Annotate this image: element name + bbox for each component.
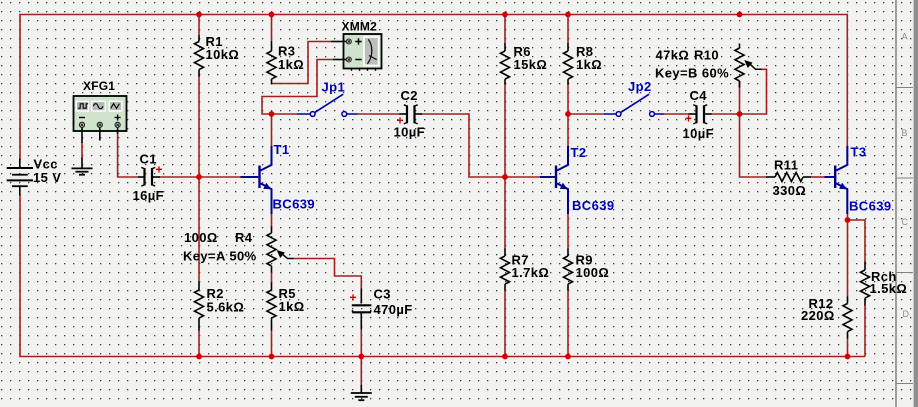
wire Jp1 right to C2 xyxy=(357,113,400,115)
svg-text:Key=A 50%: Key=A 50% xyxy=(183,249,257,264)
multimeter XMM2 xyxy=(331,34,382,71)
wire XFG plus down xyxy=(118,133,138,177)
resistor R3 xyxy=(267,41,276,84)
wire R11 right to T3 base xyxy=(811,176,825,178)
svg-text:C2: C2 xyxy=(401,88,418,103)
svg-text:16µF: 16µF xyxy=(133,188,165,203)
svg-text:15kΩ: 15kΩ xyxy=(514,57,548,72)
node T3 emitter xyxy=(845,217,851,223)
potentiometer R10 xyxy=(735,44,762,88)
svg-text:T1: T1 xyxy=(274,142,290,157)
svg-text:470µF: 470µF xyxy=(374,302,413,317)
node R3 top xyxy=(269,12,275,18)
wire R4 wiper to C3 xyxy=(293,259,361,290)
ground (XFG1) xyxy=(72,158,93,175)
ground (bottom, under C3) xyxy=(351,385,372,400)
node C4 R10 xyxy=(737,111,743,117)
wire R8 top lead xyxy=(567,15,569,44)
wire XMM2 minus to collector node xyxy=(262,60,333,115)
svg-text:100Ω: 100Ω xyxy=(576,265,610,280)
svg-text:C: C xyxy=(902,217,909,227)
svg-text:5.6kΩ: 5.6kΩ xyxy=(207,300,245,315)
resistor R11 xyxy=(766,173,811,182)
wire C2 right to T2 base xyxy=(421,114,540,177)
wire T3 emitter to junction xyxy=(847,214,849,220)
function generator XFG1 xyxy=(74,96,127,143)
node R7 bottom xyxy=(502,354,508,360)
jumper Jp2 xyxy=(604,94,664,116)
node T2 collector xyxy=(565,111,571,117)
svg-text:R4: R4 xyxy=(235,230,253,245)
svg-text:C3: C3 xyxy=(374,287,391,302)
wire top bus xyxy=(20,15,847,161)
resistor R9 xyxy=(564,249,573,291)
node R5 bottom xyxy=(269,354,275,360)
svg-text:10µF: 10µF xyxy=(683,126,715,141)
wire Jp2 right to C4 xyxy=(664,113,689,115)
resistor R6 xyxy=(501,43,510,85)
capacitor C2 xyxy=(400,105,423,124)
capacitor C3 xyxy=(352,289,372,330)
wire R1 top lead xyxy=(198,15,200,36)
wire R4 bottom to R5 xyxy=(271,272,273,283)
wire R3 top lead xyxy=(271,15,273,42)
wire R3 bottom to XMM2 plus xyxy=(272,42,332,84)
svg-text:47kΩ: 47kΩ xyxy=(656,48,690,63)
wire XFG minus down xyxy=(81,142,83,159)
potentiometer R4 xyxy=(267,227,294,273)
svg-text:R10: R10 xyxy=(694,48,719,63)
node R2 bottom xyxy=(196,354,202,360)
svg-text:XMM2: XMM2 xyxy=(342,20,378,34)
svg-text:1kΩ: 1kΩ xyxy=(576,57,602,72)
resistor R2 xyxy=(195,282,204,331)
wire C3 bottom xyxy=(360,329,362,357)
svg-text:A: A xyxy=(902,32,908,42)
svg-text:330Ω: 330Ω xyxy=(773,183,807,198)
resistor R8 xyxy=(564,43,573,85)
wire C4 right to R10 node xyxy=(711,113,740,115)
wire rch riser xyxy=(864,305,866,357)
svg-text:R11: R11 xyxy=(774,158,798,173)
node T2 base xyxy=(502,174,508,180)
node R9 bottom xyxy=(565,354,571,360)
wire R1 bottom to base node xyxy=(198,76,200,177)
node R6 top xyxy=(502,12,508,18)
svg-text:10µF: 10µF xyxy=(394,125,426,140)
svg-text:10kΩ: 10kΩ xyxy=(206,47,240,62)
svg-text:T2: T2 xyxy=(571,145,587,160)
wire switch node down to T2 collector xyxy=(567,114,569,161)
transistor T2 xyxy=(540,146,568,214)
node T1 base xyxy=(196,174,202,180)
svg-text:220Ω: 220Ω xyxy=(801,308,835,323)
svg-text:BC639: BC639 xyxy=(849,199,891,214)
svg-text:D: D xyxy=(903,309,910,319)
svg-text:+: + xyxy=(156,163,163,177)
svg-text:+: + xyxy=(350,291,357,305)
svg-text:Jp2: Jp2 xyxy=(628,79,652,94)
svg-text:1.5kΩ: 1.5kΩ xyxy=(870,281,908,296)
svg-text:Jp1: Jp1 xyxy=(322,80,346,95)
wire R9 bottom xyxy=(567,290,569,357)
wire left rail bottom xyxy=(20,195,865,357)
wire collector node down to T1 xyxy=(271,114,273,161)
node C3 bottom xyxy=(358,354,364,360)
wire R2 bottom xyxy=(198,330,200,357)
wire T2 emitter to R9 xyxy=(567,214,569,249)
wire base node to R2 xyxy=(198,177,200,282)
wire R7 bottom xyxy=(504,290,506,357)
svg-text:1kΩ: 1kΩ xyxy=(278,57,304,72)
resistor R7 xyxy=(501,249,510,291)
wire ground stub below bus xyxy=(360,357,362,387)
node R8 top xyxy=(565,12,571,18)
svg-text:+: + xyxy=(685,112,692,126)
jumper Jp1 xyxy=(297,94,358,116)
capacitor C1 xyxy=(138,167,160,186)
svg-text:15 V: 15 V xyxy=(33,170,61,185)
svg-text:C1: C1 xyxy=(140,152,157,167)
node T1 collector xyxy=(269,111,275,117)
node R1 top xyxy=(196,12,202,18)
transistor T3 xyxy=(825,146,848,214)
wire T1 emitter to R4 xyxy=(271,214,273,227)
wire emitter junction to Rch xyxy=(848,220,866,262)
svg-text:B: B xyxy=(902,128,908,138)
node R10 top xyxy=(737,12,743,18)
wire C1 to T1 base xyxy=(159,176,241,178)
wire R5 bottom xyxy=(271,330,273,357)
wire R8 bottom to switch node xyxy=(567,84,569,114)
wire R6 top lead xyxy=(504,15,506,44)
wire R12 bottom xyxy=(847,338,849,357)
svg-text:100Ω: 100Ω xyxy=(184,230,218,245)
resistor Rch xyxy=(861,262,870,306)
node R12 bottom xyxy=(845,354,851,360)
battery Vcc xyxy=(7,159,33,196)
svg-text:XFG1: XFG1 xyxy=(83,79,115,93)
wire base node to R7 xyxy=(504,177,506,249)
wire switch node to Jp2 xyxy=(568,113,604,115)
wire R10 wiper loop xyxy=(742,69,767,114)
wire emitter junction to R12 xyxy=(847,220,849,297)
wire R6 bottom to base node xyxy=(504,84,506,177)
svg-text:BC639: BC639 xyxy=(572,198,614,213)
capacitor C4 xyxy=(689,105,712,124)
svg-text:1.7kΩ: 1.7kΩ xyxy=(512,265,550,280)
svg-text:BC639: BC639 xyxy=(273,197,315,212)
svg-text:Key=B 60%: Key=B 60% xyxy=(655,66,729,81)
svg-text:1kΩ: 1kΩ xyxy=(279,299,305,314)
wire R10 bottom to R11 xyxy=(740,81,767,177)
resistor R1 xyxy=(195,35,204,77)
svg-text:T3: T3 xyxy=(851,145,867,160)
resistor R12 xyxy=(843,297,852,339)
svg-text:C4: C4 xyxy=(690,88,708,103)
transistor T1 xyxy=(241,146,272,214)
resistor R5 xyxy=(267,283,276,331)
